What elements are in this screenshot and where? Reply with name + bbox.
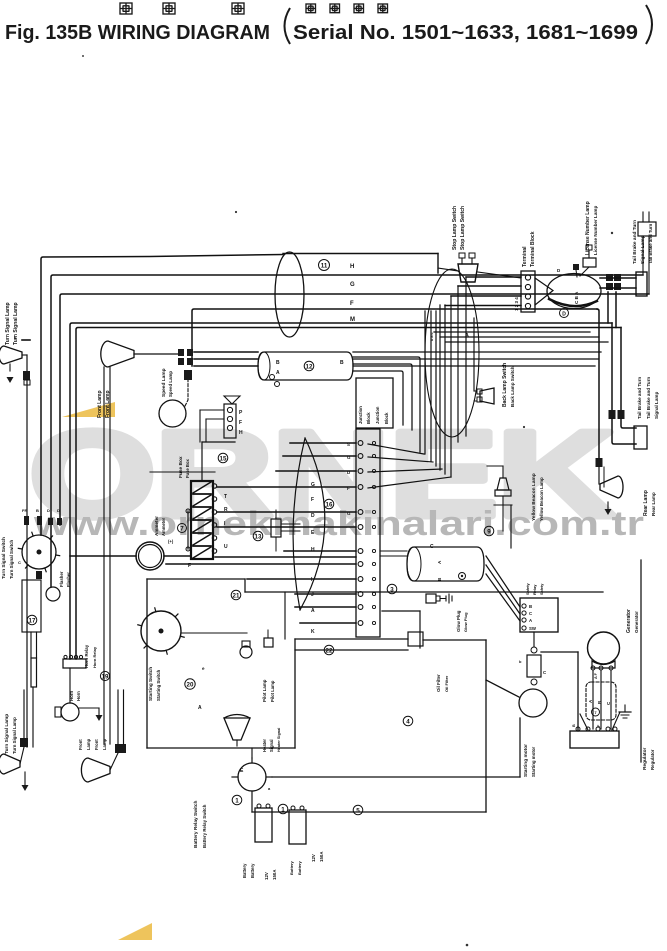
- svg-text:C: C: [18, 560, 21, 565]
- svg-text:Rear Lamp: Rear Lamp: [643, 490, 649, 516]
- svg-text:Pilot Lamp: Pilot Lamp: [262, 679, 267, 702]
- svg-text:Safety: Safety: [525, 582, 530, 595]
- svg-text:Starting Switch: Starting Switch: [148, 667, 153, 701]
- svg-text:Starting motor: Starting motor: [531, 746, 536, 777]
- svg-text:Speed Lamp: Speed Lamp: [168, 371, 173, 397]
- svg-text:A: A: [276, 370, 280, 376]
- svg-text:Relay: Relay: [532, 584, 537, 595]
- svg-text:Battery Relay Switch: Battery Relay Switch: [193, 800, 199, 848]
- svg-text:Glow Plug: Glow Plug: [456, 610, 461, 632]
- svg-text:G: G: [347, 511, 351, 516]
- svg-text:F: F: [188, 563, 191, 569]
- svg-text:21: 21: [233, 592, 240, 599]
- svg-text:D: D: [57, 508, 60, 513]
- svg-text:Block: Block: [366, 412, 371, 424]
- svg-text:B: B: [529, 604, 532, 609]
- svg-text:Flasher: Flasher: [66, 572, 71, 587]
- svg-text:S: S: [347, 442, 350, 447]
- svg-text:Turn Signal Lamp: Turn Signal Lamp: [4, 714, 10, 754]
- svg-text:Safety: Safety: [540, 583, 544, 595]
- svg-text:150A: 150A: [319, 851, 324, 862]
- svg-text:H: H: [239, 430, 243, 436]
- svg-text:M: M: [350, 317, 355, 323]
- svg-text:Fig. 135B WIRING DIAGRAM: Fig. 135B WIRING DIAGRAM: [5, 22, 270, 44]
- svg-text:Front: Front: [94, 739, 99, 750]
- svg-text:Terminal: Terminal: [522, 246, 528, 267]
- svg-text:Serial No. 1501~1633, 1681~169: Serial No. 1501~1633, 1681~1699: [293, 22, 638, 44]
- svg-text:Pilot Lamp: Pilot Lamp: [270, 680, 275, 702]
- svg-text:Regulator: Regulator: [642, 747, 648, 770]
- svg-text:(+): (+): [168, 539, 174, 544]
- svg-text:Regulator: Regulator: [650, 749, 655, 770]
- svg-text:Lamp: Lamp: [86, 738, 91, 750]
- svg-text:22: 22: [326, 647, 333, 654]
- svg-text:G: G: [347, 455, 351, 460]
- svg-text:Fuse Box: Fuse Box: [178, 456, 184, 478]
- svg-text:U: U: [224, 544, 228, 550]
- svg-text:A F: A F: [594, 672, 598, 679]
- svg-text:Horn: Horn: [76, 691, 81, 701]
- svg-text:License Number Lamp: License Number Lamp: [593, 206, 598, 255]
- svg-text:Speed Lamp: Speed Lamp: [161, 368, 167, 397]
- svg-text:B: B: [340, 360, 344, 366]
- svg-text:Starting Switch: Starting Switch: [156, 669, 161, 701]
- svg-text:Front Lamp: Front Lamp: [97, 391, 103, 419]
- svg-text:A: A: [311, 608, 315, 614]
- svg-text:Generator: Generator: [634, 611, 639, 633]
- svg-text:150A: 150A: [272, 869, 277, 880]
- svg-text:Back Lamp Switch: Back Lamp Switch: [502, 363, 508, 407]
- svg-text:Turn Signal Switch: Turn Signal Switch: [1, 537, 6, 579]
- svg-text:C B A: C B A: [574, 291, 579, 304]
- svg-text:Stop Lamp Switch: Stop Lamp Switch: [452, 206, 458, 250]
- svg-text:Tail Brake and Turn: Tail Brake and Turn: [632, 220, 638, 264]
- svg-text:Battery: Battery: [250, 863, 255, 878]
- svg-text:Signal Lamp: Signal Lamp: [654, 391, 659, 419]
- svg-text:F: F: [239, 420, 242, 426]
- svg-text:B: B: [276, 360, 280, 366]
- svg-text:b a c: b a c: [430, 332, 434, 341]
- svg-text:F: F: [311, 497, 314, 503]
- svg-text:License Number Lamp: License Number Lamp: [585, 201, 591, 255]
- svg-text:Rear Lamp: Rear Lamp: [651, 492, 656, 516]
- svg-text:Fuse Box: Fuse Box: [185, 458, 190, 478]
- svg-text:C: C: [529, 611, 532, 616]
- svg-text:1 2 3 4: 1 2 3 4: [514, 297, 519, 311]
- svg-text:www.ornekmakinalari.com.tr: www.ornekmakinalari.com.tr: [33, 505, 644, 543]
- svg-text:Heater: Heater: [262, 739, 267, 752]
- svg-text:Oil Filter: Oil Filter: [444, 675, 449, 692]
- svg-text:15: 15: [220, 455, 227, 462]
- svg-text:Tail Brake and Turn: Tail Brake and Turn: [646, 377, 651, 419]
- svg-text:12: 12: [306, 363, 313, 370]
- svg-text:11: 11: [321, 262, 328, 269]
- svg-text:Signal Lamp: Signal Lamp: [640, 235, 646, 264]
- svg-text:1: 1: [235, 797, 239, 804]
- svg-text:Lamp: Lamp: [102, 738, 107, 750]
- svg-text:Horn Relay: Horn Relay: [92, 646, 97, 668]
- svg-text:D: D: [311, 513, 315, 519]
- svg-text:Yellow Beacon Lamp: Yellow Beacon Lamp: [539, 477, 544, 521]
- svg-text:Tail Brake and Turn: Tail Brake and Turn: [648, 223, 653, 264]
- svg-text:R: R: [224, 507, 228, 513]
- svg-text:17: 17: [29, 617, 36, 624]
- svg-text:FR: FR: [22, 508, 27, 513]
- svg-text:Stop Lamp Switch: Stop Lamp Switch: [460, 206, 466, 250]
- svg-text:Back Lamp Switch: Back Lamp Switch: [510, 366, 515, 407]
- svg-text:Front: Front: [78, 739, 83, 750]
- svg-text:F: F: [350, 301, 354, 307]
- svg-text:Horn Relay: Horn Relay: [84, 644, 89, 668]
- svg-text:Ammeter: Ammeter: [154, 516, 159, 536]
- svg-text:Battery: Battery: [289, 860, 294, 875]
- svg-text:20: 20: [187, 681, 194, 688]
- svg-text:Turn Signal Lamp: Turn Signal Lamp: [12, 717, 17, 754]
- svg-text:Yellow Beacon Lamp: Yellow Beacon Lamp: [531, 473, 537, 521]
- svg-text:B: B: [572, 724, 576, 727]
- svg-text:Turn Signal Switch: Turn Signal Switch: [9, 539, 14, 579]
- svg-text:13: 13: [255, 533, 262, 540]
- svg-text:16: 16: [326, 501, 333, 508]
- svg-text:A: A: [529, 618, 532, 623]
- svg-text:Ammeter: Ammeter: [161, 517, 166, 536]
- svg-text:Battery: Battery: [297, 860, 302, 875]
- svg-text:SW: SW: [529, 626, 537, 631]
- svg-text:B: B: [597, 701, 602, 704]
- svg-text:Starting motor: Starting motor: [523, 744, 529, 777]
- svg-text:Junction: Junction: [375, 406, 380, 424]
- svg-text:19: 19: [102, 673, 109, 680]
- svg-text:F: F: [347, 486, 350, 491]
- svg-text:D: D: [47, 508, 50, 513]
- svg-text:Junction: Junction: [358, 406, 363, 424]
- svg-text:Generator: Generator: [626, 609, 632, 633]
- svg-text:G: G: [350, 282, 355, 288]
- svg-text:4: 4: [406, 718, 410, 725]
- svg-text:Flasher: Flasher: [59, 571, 64, 587]
- svg-text:Battery: Battery: [242, 863, 247, 878]
- svg-text:A: A: [465, 333, 469, 339]
- svg-text:G: G: [311, 482, 315, 488]
- svg-text:A: A: [198, 705, 202, 711]
- svg-text:5: 5: [356, 807, 360, 814]
- svg-text:Turn Signal Lamp: Turn Signal Lamp: [5, 302, 11, 345]
- svg-text:12V: 12V: [264, 872, 269, 880]
- svg-text:12V: 12V: [311, 854, 316, 862]
- svg-text:Terminal Block: Terminal Block: [530, 231, 536, 267]
- svg-text:T: T: [224, 494, 227, 500]
- svg-text:K: K: [311, 629, 315, 635]
- svg-text:C: C: [430, 544, 434, 550]
- svg-text:Glow Plug: Glow Plug: [463, 612, 468, 632]
- svg-text:D: D: [562, 312, 566, 318]
- svg-text:9: 9: [487, 528, 491, 535]
- svg-text:J: J: [311, 592, 314, 598]
- svg-text:H: H: [311, 547, 315, 553]
- svg-text:H: H: [350, 264, 354, 270]
- svg-text:B: B: [36, 508, 39, 513]
- svg-text:Signal: Signal: [269, 739, 274, 752]
- svg-text:7: 7: [180, 525, 184, 532]
- svg-text:Oil Filter: Oil Filter: [436, 674, 441, 692]
- svg-text:Battery Relay Switch: Battery Relay Switch: [202, 804, 207, 848]
- svg-text:Tail Brake and Turn: Tail Brake and Turn: [637, 377, 642, 419]
- svg-text:Block: Block: [384, 412, 389, 424]
- svg-text:Heater Signal: Heater Signal: [277, 728, 281, 752]
